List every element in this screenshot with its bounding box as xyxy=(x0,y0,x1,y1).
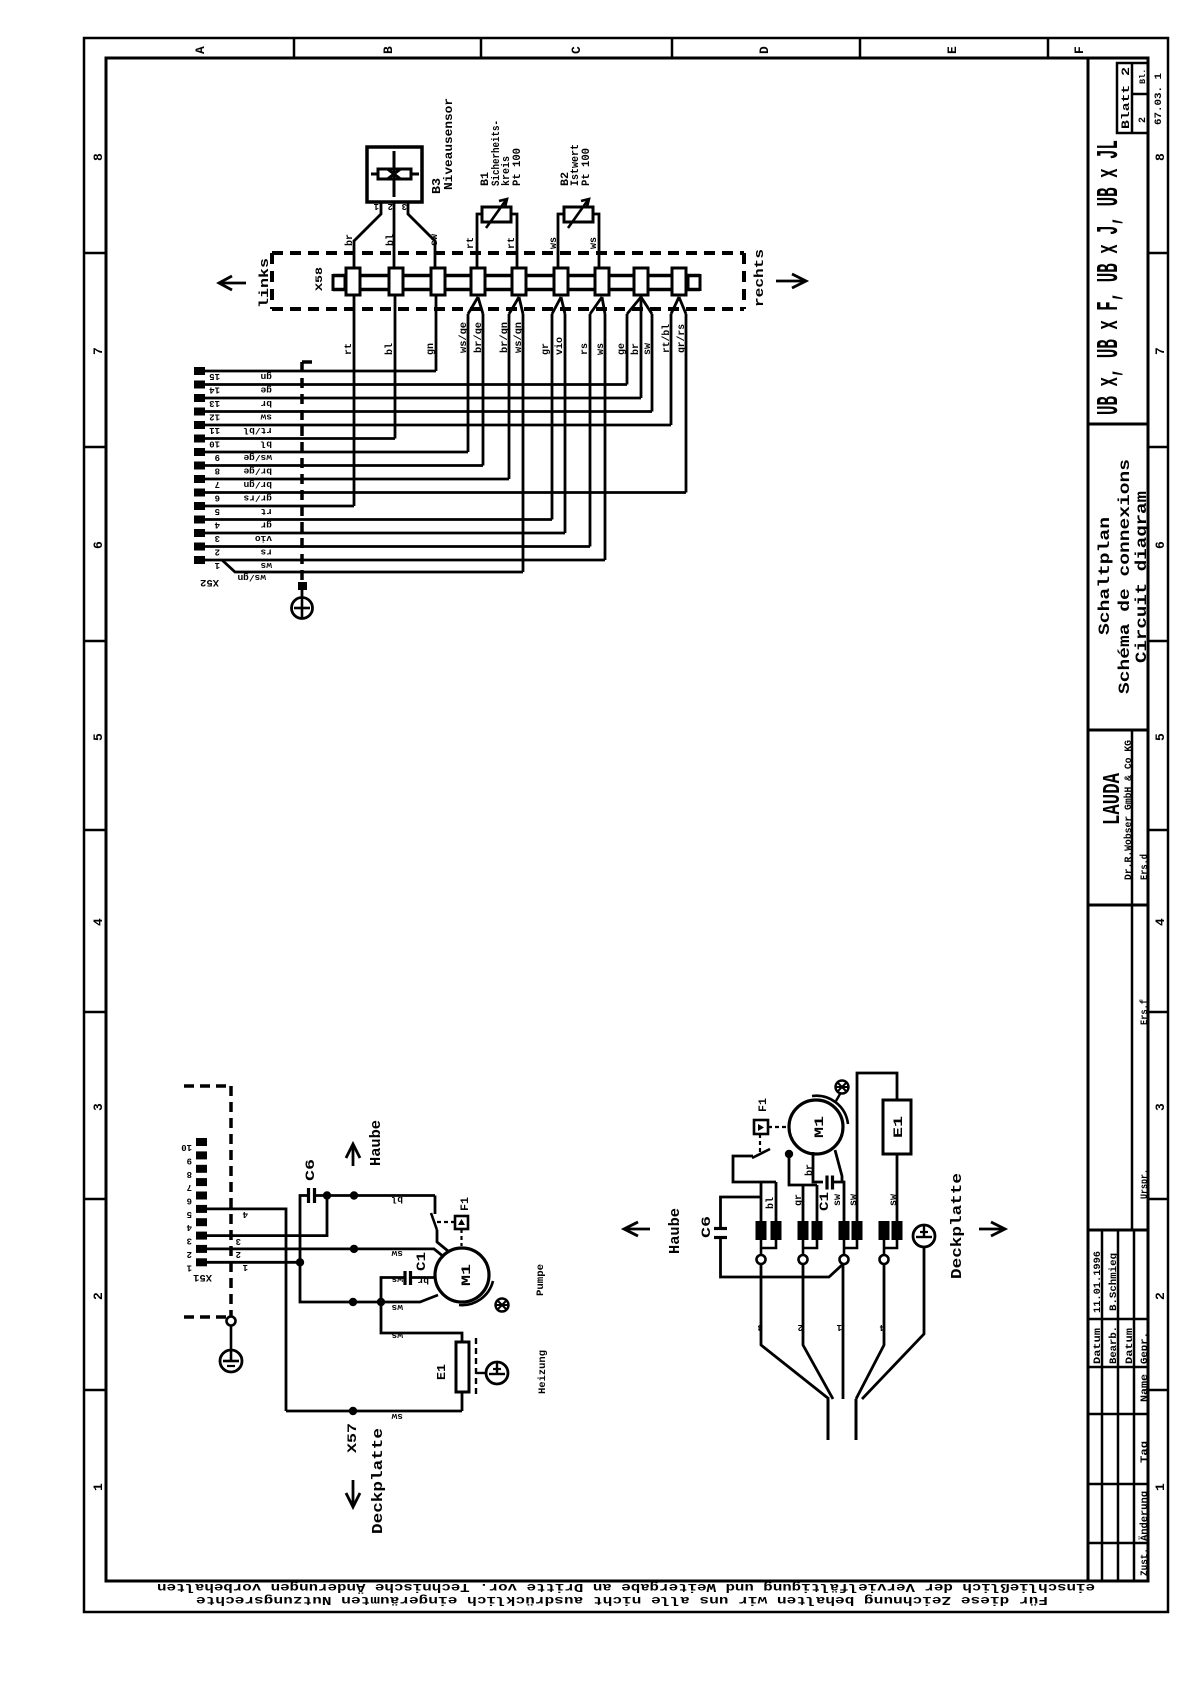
svg-text:Bl.: Bl. xyxy=(1138,69,1148,84)
junction dot row2 Haube xyxy=(350,1245,358,1253)
svg-text:Ers.f: Ers.f xyxy=(1139,999,1151,1025)
X51 pin 5 terminal xyxy=(196,1205,207,1213)
svg-text:M1: M1 xyxy=(812,1116,827,1138)
X52 wire 14 (ge) xyxy=(205,383,627,386)
svg-text:rs: rs xyxy=(260,547,272,558)
wire pin4a down (ws/ge) xyxy=(467,314,470,452)
X51 earth terminal circle xyxy=(227,1317,236,1326)
fork X58 pin5 xyxy=(509,297,519,314)
svg-text:Pt 100: Pt 100 xyxy=(512,148,524,186)
svg-text:sw: sw xyxy=(889,1194,900,1206)
junction dot switch motor right xyxy=(785,1150,793,1158)
X52 pin 9 terminal xyxy=(194,448,205,456)
svg-text:7: 7 xyxy=(1153,347,1168,355)
arrow pointing left (links) xyxy=(220,282,246,285)
wire row 3 from pin1 junction xyxy=(300,1262,438,1302)
wire C1 left lead xyxy=(381,1278,405,1303)
X52 wire 1 (ws) xyxy=(205,559,605,562)
wire pin4b down (br/ge) xyxy=(482,314,485,466)
svg-text:Zust.: Zust. xyxy=(1140,1548,1151,1576)
heater earth dashed xyxy=(475,1338,477,1396)
svg-text:ge: ge xyxy=(260,385,272,396)
svg-text:br/gn: br/gn xyxy=(243,479,272,490)
revision table row lines xyxy=(1088,1318,1148,1321)
X58 connector pins 1-9 xyxy=(346,268,360,295)
sheet number box Blatt xyxy=(1117,63,1148,133)
svg-text:1: 1 xyxy=(242,1262,248,1272)
protective earth symbol X51 xyxy=(220,1350,242,1372)
svg-text:Schéma de connexions: Schéma de connexions xyxy=(1116,459,1134,694)
pump motor M1 left circuit xyxy=(435,1248,489,1302)
B2 variable arrow xyxy=(568,200,588,228)
fork X58 pin9 xyxy=(671,297,679,314)
X52 wire 12 (sw) xyxy=(205,410,652,413)
row number ticks right band xyxy=(1148,252,1168,255)
protective earth symbol X52 xyxy=(301,590,304,598)
svg-text:E1: E1 xyxy=(435,1364,449,1380)
motor frame arc left circuit xyxy=(459,1281,493,1305)
svg-text:3: 3 xyxy=(758,1322,763,1332)
X52 pin 6 terminal xyxy=(194,489,205,497)
svg-text:bl: bl xyxy=(765,1197,777,1209)
svg-text:10: 10 xyxy=(209,439,220,449)
X52 wire 10 (bl) xyxy=(205,437,395,440)
dashed link F1 to motor xyxy=(460,1229,462,1246)
svg-text:4: 4 xyxy=(186,1222,192,1232)
svg-text:1: 1 xyxy=(1153,1483,1168,1491)
svg-text:13: 13 xyxy=(209,398,220,408)
X51 pin 4 terminal xyxy=(196,1218,207,1226)
svg-text:F1: F1 xyxy=(758,1098,770,1112)
contact pair lower links xyxy=(844,1240,857,1248)
heater earth link xyxy=(476,1372,486,1374)
wire pin6a down (gr) xyxy=(551,314,554,520)
svg-text:br: br xyxy=(344,234,356,246)
protective earth symbol right circuit xyxy=(913,1225,935,1247)
motor frame arc right circuit xyxy=(812,1096,848,1124)
wire C6 left lead to junction xyxy=(300,1196,309,1263)
dashed boundary X52 xyxy=(302,360,317,364)
wire pin9a down (rt/bl) xyxy=(670,314,673,425)
svg-text:4: 4 xyxy=(214,520,220,530)
protective earth symbol E1 left xyxy=(486,1362,508,1384)
svg-text:gr/rs: gr/rs xyxy=(676,324,688,353)
svg-text:2: 2 xyxy=(215,547,220,557)
svg-text:2: 2 xyxy=(1153,1292,1168,1300)
heater E1 right circuit xyxy=(883,1100,911,1154)
svg-text:ws: ws xyxy=(589,237,600,249)
svg-text:10: 10 xyxy=(181,1142,192,1152)
thermal switch contact left circuit xyxy=(431,1213,437,1230)
title block section divider lines xyxy=(1088,423,1148,426)
connector contact pairs right circuit xyxy=(756,1221,767,1240)
temperature probe B1 body xyxy=(482,207,511,222)
svg-text:UB x, UB x F, UB x J, UB x JL: UB x, UB x F, UB x J, UB x JL xyxy=(1092,140,1127,415)
wire pin8c down (sw) xyxy=(651,314,654,412)
svg-text:6: 6 xyxy=(91,541,106,549)
svg-text:2: 2 xyxy=(1138,117,1149,123)
svg-text:6: 6 xyxy=(1153,541,1168,549)
X52 pin 1 terminal xyxy=(194,556,205,564)
svg-text:8: 8 xyxy=(1153,153,1168,161)
svg-text:ws: ws xyxy=(549,237,560,249)
X52 wire 7 (br/gn) xyxy=(205,478,509,481)
svg-text:einschließlich der Vervielfält: einschließlich der Vervielfältigung und … xyxy=(157,1580,1095,1595)
svg-text:rt: rt xyxy=(344,343,355,355)
wire X58 pin1 down (rt) xyxy=(353,295,356,506)
svg-text:8: 8 xyxy=(187,1169,192,1179)
svg-text:3: 3 xyxy=(1153,1103,1168,1111)
X51 pin 1 terminal xyxy=(196,1258,207,1266)
wire E1 top loop to pair3 right xyxy=(857,1073,897,1221)
wire C6 right lead row A xyxy=(315,1194,436,1197)
X52 wire 11 (rt/bl) xyxy=(205,424,671,427)
socket circle xyxy=(880,1255,889,1264)
svg-text:ws: ws xyxy=(596,343,607,355)
X52 wire 5 (rt) xyxy=(205,505,354,508)
fork X58 pin6 xyxy=(552,297,561,314)
svg-text:6: 6 xyxy=(187,1196,192,1206)
svg-text:C6: C6 xyxy=(303,1159,318,1181)
wire pin6b down (vio) xyxy=(564,314,567,533)
svg-text:7: 7 xyxy=(91,347,106,355)
svg-text:2: 2 xyxy=(236,1249,241,1259)
svg-text:br: br xyxy=(804,1164,816,1176)
svg-text:Urspr.: Urspr. xyxy=(1140,1169,1151,1199)
svg-text:sw: sw xyxy=(391,1248,403,1259)
svg-text:11.01.1996: 11.01.1996 xyxy=(1093,1251,1104,1313)
capacitor C6 left circuit xyxy=(307,1188,310,1203)
dashed link F1 to motor right xyxy=(768,1126,788,1128)
X52 wire 4 (gr) xyxy=(205,518,552,521)
svg-text:5: 5 xyxy=(91,733,106,741)
svg-text:2: 2 xyxy=(798,1322,803,1332)
svg-text:C: C xyxy=(569,46,584,54)
wire pin8a down (ge) xyxy=(626,314,629,385)
thermal cutout F1 box right xyxy=(754,1120,768,1134)
svg-text:br/ge: br/ge xyxy=(243,466,272,477)
socket circle xyxy=(757,1255,766,1264)
svg-text:gr/rs: gr/rs xyxy=(243,493,272,504)
wire B1 right to X58 pin5 (rt) xyxy=(511,214,517,268)
thermal cutout F1 box left xyxy=(455,1216,468,1229)
svg-text:Bearb.: Bearb. xyxy=(1108,1326,1120,1364)
svg-text:ws/gn: ws/gn xyxy=(513,322,525,353)
svg-text:sw: sw xyxy=(833,1194,844,1206)
wire row A down to switch F1 xyxy=(434,1196,437,1215)
wire C1 right lead down to pair3 left xyxy=(833,1182,845,1221)
X52 wire 15 (gn) xyxy=(205,370,436,373)
X52 pin 11 terminal xyxy=(194,421,205,429)
svg-text:sw: sw xyxy=(849,1194,860,1206)
socket circle xyxy=(840,1255,849,1264)
svg-text:X52: X52 xyxy=(200,576,219,588)
svg-text:Datum: Datum xyxy=(1125,1328,1136,1364)
X52 pin 7 terminal xyxy=(194,475,205,483)
svg-text:Deckplatte: Deckplatte xyxy=(949,1173,966,1279)
svg-text:ws/ge: ws/ge xyxy=(243,452,272,463)
svg-text:M1: M1 xyxy=(459,1264,474,1286)
svg-text:2: 2 xyxy=(187,1249,192,1259)
X52 pin 8 terminal xyxy=(194,462,205,470)
dashed boundary box around X58 strip xyxy=(272,251,744,255)
svg-text:4: 4 xyxy=(879,1322,885,1332)
connector strip X58 bus bar xyxy=(333,274,700,278)
svg-text:B.Schmieg: B.Schmieg xyxy=(1108,1253,1120,1311)
svg-text:bl: bl xyxy=(260,439,272,450)
wire pin5a down (br/gn) xyxy=(508,314,511,479)
X51 pin 7 terminal xyxy=(196,1178,207,1186)
arrow up Haube xyxy=(352,1146,355,1166)
wire pin7a down (rs) xyxy=(589,314,592,547)
svg-text:sw: sw xyxy=(430,234,441,246)
contact pair lower links xyxy=(884,1240,897,1248)
svg-text:8: 8 xyxy=(91,153,106,161)
svg-text:Änderung: Änderung xyxy=(1138,1491,1151,1541)
column letter ticks top band xyxy=(293,38,296,58)
svg-text:bl: bl xyxy=(384,343,396,355)
bottom rail wire left circuit xyxy=(286,1410,462,1413)
svg-text:3: 3 xyxy=(236,1236,241,1246)
X51 pin 9 terminal xyxy=(196,1151,207,1159)
svg-text:Heizung: Heizung xyxy=(537,1350,549,1394)
X51 pin 3 terminal xyxy=(196,1232,207,1240)
svg-text:2: 2 xyxy=(388,201,393,211)
wire socket1 down number 3 xyxy=(761,1264,829,1399)
svg-text:C6: C6 xyxy=(699,1216,714,1238)
wire pin5b down (ws/gn) xyxy=(522,314,525,572)
B3 internal float switch xyxy=(393,151,396,197)
svg-text:7: 7 xyxy=(215,479,220,489)
wire motor to pair2 gr xyxy=(789,1154,817,1185)
svg-text:ws: ws xyxy=(391,1274,403,1285)
svg-text:gr: gr xyxy=(260,520,272,531)
wire B2 left to X58 pin6 (ws) xyxy=(558,214,564,268)
X52 earth terminal dot xyxy=(298,582,307,590)
wire B1 left to X58 pin4 (rt) xyxy=(477,214,482,268)
svg-text:4: 4 xyxy=(242,1209,248,1219)
X52 pin 3 terminal xyxy=(194,529,205,537)
svg-text:Pt 100: Pt 100 xyxy=(581,148,593,186)
svg-text:Tag: Tag xyxy=(1140,1441,1151,1463)
divider Ers strip xyxy=(1131,730,1134,1230)
drawing frame inner border xyxy=(106,58,1148,1581)
svg-text:Circuit diagram: Circuit diagram xyxy=(1133,491,1151,663)
svg-text:sw: sw xyxy=(260,412,272,423)
row number ticks left band xyxy=(84,252,106,255)
arrow right Deckplatte xyxy=(979,1228,1003,1231)
X52 extra wire ws/gn from pin 1 xyxy=(222,560,523,572)
revision table column lines xyxy=(1101,1230,1104,1581)
wire E1 bottom to pair4 right xyxy=(896,1154,899,1221)
wire pair1 right lead xyxy=(775,1182,778,1221)
socket circle xyxy=(799,1255,808,1264)
wire motor left bottom to C1 xyxy=(813,1152,823,1182)
level sensor B3 box xyxy=(367,147,422,202)
motor earth mini circle left xyxy=(496,1299,509,1312)
B1 variable arrow xyxy=(486,200,506,228)
svg-text:Deckplatte: Deckplatte xyxy=(370,1428,387,1534)
wire E1 bottom lead xyxy=(461,1392,464,1411)
arrow down Deckplatte left xyxy=(352,1480,355,1504)
X52 wire 2 (rs) xyxy=(205,545,590,548)
X58 bus left end stub xyxy=(333,276,345,290)
wire socket3 down number 1 xyxy=(842,1264,845,1399)
X52 pin 10 terminal xyxy=(194,435,205,443)
svg-text:12: 12 xyxy=(209,412,220,422)
heater E1 left circuit xyxy=(456,1342,469,1392)
wire X58 pin3 down (gn) xyxy=(435,295,438,371)
svg-text:vio: vio xyxy=(255,533,272,544)
fork X58 pin8 (triple) xyxy=(627,297,641,314)
svg-text:ws: ws xyxy=(391,1330,403,1341)
svg-text:bl: bl xyxy=(391,1194,403,1205)
wire B2 right to X58 pin7 (ws) xyxy=(593,214,599,268)
svg-text:sw: sw xyxy=(643,343,654,355)
svg-text:5: 5 xyxy=(187,1209,192,1219)
svg-text:br/ge: br/ge xyxy=(473,322,485,353)
X52 wire 13 (br) xyxy=(205,397,641,400)
svg-text:gr: gr xyxy=(794,1194,805,1206)
motor earth mini circle right xyxy=(836,1081,849,1094)
X52 pin 2 terminal xyxy=(194,543,205,551)
wire motor right bottom diagonal xyxy=(835,1150,842,1182)
svg-text:7: 7 xyxy=(187,1182,192,1192)
svg-text:Name: Name xyxy=(1140,1374,1151,1402)
svg-text:Für diese Zeichnung behalten w: Für diese Zeichnung behalten wir uns all… xyxy=(196,1593,1048,1607)
svg-text:rt/bl: rt/bl xyxy=(243,425,272,436)
wire E1 top lead xyxy=(381,1302,462,1342)
X51 pin 2 terminal xyxy=(196,1245,207,1253)
thermal switch contact right xyxy=(752,1149,770,1158)
svg-text:br: br xyxy=(260,398,272,409)
svg-text:E1: E1 xyxy=(891,1116,906,1138)
wire B3 pin2 to X58 pin2 (bl) xyxy=(393,202,396,268)
svg-text:D: D xyxy=(757,46,772,54)
svg-text:rt: rt xyxy=(507,237,518,249)
svg-text:9: 9 xyxy=(187,1155,192,1165)
svg-text:Blatt 2: Blatt 2 xyxy=(1121,67,1133,129)
svg-text:Haube: Haube xyxy=(368,1120,385,1166)
junction dot row3 C1/E1 xyxy=(377,1298,385,1306)
fork X58 pin4 xyxy=(468,297,478,314)
svg-text:2: 2 xyxy=(91,1292,106,1300)
svg-text:rt: rt xyxy=(466,237,477,249)
svg-text:F1: F1 xyxy=(460,1197,472,1211)
fork X58 pin7 xyxy=(590,297,602,314)
svg-text:3: 3 xyxy=(402,201,407,211)
svg-text:ws: ws xyxy=(391,1302,403,1313)
svg-text:bl: bl xyxy=(385,234,397,246)
wire socket4 down number 4 xyxy=(856,1264,884,1399)
svg-text:1: 1 xyxy=(373,201,379,211)
svg-text:3: 3 xyxy=(91,1103,106,1111)
X52 pin 14 terminal xyxy=(194,381,205,389)
X52 pin 13 terminal xyxy=(194,394,205,402)
svg-text:sw: sw xyxy=(391,1411,403,1422)
svg-text:rt: rt xyxy=(261,506,272,517)
junction dot row3 Haube xyxy=(349,1298,357,1306)
svg-text:1: 1 xyxy=(91,1483,106,1491)
svg-text:5: 5 xyxy=(1153,733,1168,741)
wire X58 pin2 down (bl) xyxy=(394,295,397,439)
svg-text:X58: X58 xyxy=(314,267,326,291)
svg-text:Haube: Haube xyxy=(667,1208,684,1254)
wire pair1 left lead xyxy=(760,1182,763,1221)
wire switch loop right circuit xyxy=(733,1156,776,1182)
svg-text:gn: gn xyxy=(426,343,437,355)
junction dot pin1/C6 xyxy=(296,1258,304,1266)
svg-text:br/gn: br/gn xyxy=(499,322,511,353)
svg-text:links: links xyxy=(257,258,272,308)
svg-text:9: 9 xyxy=(215,452,220,462)
svg-text:14: 14 xyxy=(209,385,220,395)
capacitor C1 right circuit xyxy=(825,1176,828,1190)
svg-text:X51: X51 xyxy=(193,1271,212,1283)
wire earth down to cable xyxy=(862,1247,924,1399)
svg-text:A: A xyxy=(193,46,208,54)
X51 pin 8 terminal xyxy=(196,1165,207,1173)
svg-text:8: 8 xyxy=(215,466,220,476)
svg-text:1: 1 xyxy=(836,1322,842,1332)
wire switch to motor top xyxy=(437,1230,448,1251)
contact pair lower links xyxy=(761,1240,776,1248)
wire pin7b down (ws) xyxy=(604,314,607,560)
wire C6 bottom lead right circuit xyxy=(721,1238,843,1278)
wire X51 pin3 number 3 xyxy=(207,1197,327,1236)
X52 wire 3 (vio) xyxy=(205,532,565,535)
wire pin9b down (gr/rs) xyxy=(685,314,688,493)
junction dot row A Haube xyxy=(350,1191,358,1199)
pump motor M1 right circuit xyxy=(789,1100,843,1154)
svg-text:15: 15 xyxy=(209,371,220,381)
cable trunk right circuit xyxy=(827,1399,830,1440)
X52 pin 5 terminal xyxy=(194,502,205,510)
svg-text:ws/ge: ws/ge xyxy=(458,322,470,353)
X52 wire 9 (ws/ge) xyxy=(205,451,468,454)
X51 pin 10 terminal xyxy=(196,1138,207,1146)
svg-text:3: 3 xyxy=(187,1236,192,1246)
svg-text:gr: gr xyxy=(541,343,552,355)
wire X51 pin2 number 2 xyxy=(207,1249,444,1257)
svg-text:F: F xyxy=(1072,46,1087,54)
svg-text:67.03. 1: 67.03. 1 xyxy=(1153,73,1165,125)
svg-text:11: 11 xyxy=(209,425,220,435)
X52 wire 8 (br/ge) xyxy=(205,464,483,467)
arrow left Haube right circuit xyxy=(626,1228,650,1231)
capacitor C1 left circuit xyxy=(403,1271,406,1285)
svg-text:Datum: Datum xyxy=(1093,1328,1104,1364)
X52 pin 15 terminal xyxy=(194,367,205,375)
contact pair lower links xyxy=(803,1240,817,1248)
svg-text:gn: gn xyxy=(260,371,272,382)
svg-text:Gepr.: Gepr. xyxy=(1140,1332,1151,1364)
wire X51 pin1 number 1 xyxy=(207,1261,300,1264)
wire C6 top lead right circuit xyxy=(721,1197,762,1229)
temperature probe B2 body xyxy=(564,207,593,222)
svg-text:4: 4 xyxy=(91,918,106,926)
svg-text:ws: ws xyxy=(260,560,272,571)
svg-text:X57: X57 xyxy=(345,1423,360,1453)
svg-text:vio: vio xyxy=(554,337,566,355)
wire C1 right lead to motor xyxy=(411,1276,437,1279)
arrow pointing right (rechts) xyxy=(776,280,804,283)
capacitor C6 right circuit xyxy=(714,1227,727,1230)
wire socket2 down number 2 xyxy=(803,1264,833,1399)
svg-text:Niveausensor: Niveausensor xyxy=(442,98,456,190)
svg-text:3: 3 xyxy=(215,533,220,543)
svg-text:E: E xyxy=(945,46,960,54)
